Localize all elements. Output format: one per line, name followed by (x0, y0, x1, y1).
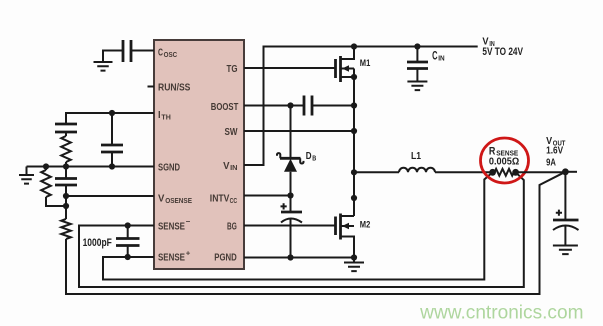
svg-text:L1: L1 (411, 151, 421, 162)
node VOSENSE junction (63, 193, 69, 199)
svg-text:PGND: PGND (214, 251, 237, 263)
wire BG to M2 gate (244, 225, 336, 227)
wire VIN pin to top rail (244, 47, 478, 166)
plus sign COUT (556, 210, 562, 216)
ground COSC (94, 62, 113, 71)
node SGND/C (63, 163, 69, 169)
capacitor CIN (416, 47, 418, 62)
capacitor VOSENSE filter (65, 167, 67, 179)
svg-text:I: I (158, 109, 161, 121)
node SGND/R (43, 163, 49, 169)
capacitor 1000pF (127, 226, 129, 239)
svg-text:SW: SW (225, 126, 238, 138)
capacitor COUT polarized (564, 172, 566, 220)
svg-text:SENSE: SENSE (158, 251, 185, 263)
svg-text:1000pF: 1000pF (83, 237, 112, 249)
svg-text:TG: TG (227, 63, 238, 75)
svg-text:9A: 9A (546, 157, 556, 168)
wire VOSENSE pin line (66, 195, 154, 197)
wire capacitor to ground (103, 51, 123, 62)
svg-text:RUN/SS: RUN/SS (158, 82, 190, 94)
svg-text:BOOST: BOOST (211, 101, 239, 113)
wire COSC pin to capacitor (132, 50, 154, 52)
ground SGND (26, 167, 28, 175)
svg-text:−: − (186, 217, 191, 226)
wire SGND line (27, 166, 155, 168)
resistor VOSENSE upper (45, 167, 47, 171)
capacitor BOOST (304, 96, 312, 116)
svg-text:D: D (306, 151, 312, 162)
node DB cathode junction (287, 102, 293, 108)
wire SENSE- line (79, 172, 524, 287)
svg-text:OSENSE: OSENSE (165, 196, 192, 205)
svg-text:www.cntronics.com: www.cntronics.com (419, 303, 583, 324)
wire TG to M1 gate (244, 67, 336, 69)
wire PGND line (244, 257, 354, 259)
svg-text:OSC: OSC (164, 50, 178, 59)
svg-text:5V TO 24V: 5V TO 24V (482, 46, 523, 58)
wire L1 to RSENSE (435, 171, 493, 173)
svg-text:SENSE: SENSE (158, 221, 185, 233)
ground COUT (553, 246, 578, 255)
plus sign INTVCC cap (281, 203, 287, 209)
capacitor ITH series (55, 124, 77, 132)
capacitor ITH parallel (111, 113, 113, 145)
wire SW line (244, 130, 354, 132)
resistor feedback lower (65, 206, 67, 219)
resistor ITH series (65, 132, 67, 136)
node M1 drain (351, 43, 357, 49)
svg-text:V: V (223, 160, 229, 172)
svg-text:SGND: SGND (158, 161, 180, 173)
node divider junction (63, 203, 69, 209)
transistor M1 (334, 59, 337, 78)
wire RSENSE to VOUT (516, 171, 566, 173)
node VOUT (562, 168, 569, 175)
svg-text:M2: M2 (360, 220, 371, 231)
wire SW to L1 (354, 171, 399, 173)
node M2 drain dot (351, 195, 357, 201)
svg-text:0.005Ω: 0.005Ω (489, 155, 519, 167)
ground CIN (407, 82, 427, 91)
svg-text:B: B (312, 155, 316, 162)
svg-text:+: + (186, 248, 191, 257)
svg-text:C: C (432, 50, 437, 62)
ground PGND (353, 258, 355, 263)
svg-text:V: V (158, 193, 164, 205)
node CIN junction (414, 43, 420, 49)
wire SENSE+ line (103, 172, 493, 279)
wire VOSENSE feedback to VOUT (66, 172, 565, 294)
node SW/L1 junction (351, 169, 357, 175)
svg-text:TH: TH (161, 112, 170, 121)
wire BOOST line (244, 105, 304, 107)
svg-text:INTV: INTV (210, 193, 230, 205)
wire ITH pin line (66, 113, 154, 124)
node SENSE-/cap (125, 222, 131, 228)
red highlight circle (481, 138, 529, 183)
transistor M2 (334, 217, 337, 236)
wire INTVCC line (244, 195, 291, 197)
resistor RSENSE (489, 169, 496, 176)
svg-text:IN: IN (438, 54, 444, 63)
capacitor COSC (123, 40, 131, 62)
svg-text:C: C (158, 47, 163, 59)
svg-text:BG: BG (227, 221, 237, 233)
diode DB schottky (290, 106, 292, 158)
node BOOST/SW junction (351, 102, 357, 108)
svg-text:IN: IN (230, 163, 237, 172)
svg-text:M1: M1 (360, 58, 371, 69)
op-amp U1 controller IC body (154, 40, 244, 269)
node ITH junction (109, 110, 115, 116)
svg-text:1.6V: 1.6V (546, 146, 563, 157)
capacitor INTVCC bypass polarized (290, 196, 292, 212)
svg-text:CC: CC (230, 196, 238, 205)
wire SW node vertical (353, 69, 355, 217)
inductor L1 (399, 168, 435, 173)
wire RUN/SS stub (148, 86, 155, 88)
